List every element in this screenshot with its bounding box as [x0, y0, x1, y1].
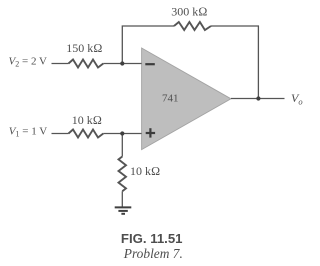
svg-text:Problem 7.: Problem 7.: [123, 246, 183, 261]
svg-text:10 kΩ: 10 kΩ: [130, 164, 160, 178]
svg-text:FIG. 11.51: FIG. 11.51: [121, 231, 183, 246]
svg-text:300 kΩ: 300 kΩ: [171, 5, 207, 19]
svg-text:V1 = 1 V: V1 = 1 V: [9, 126, 47, 139]
svg-text:741: 741: [162, 93, 179, 105]
svg-text:10 kΩ: 10 kΩ: [72, 113, 102, 127]
svg-text:V2 = 2 V: V2 = 2 V: [9, 55, 47, 68]
svg-text:Vo: Vo: [291, 91, 303, 106]
svg-text:150 kΩ: 150 kΩ: [66, 41, 102, 55]
